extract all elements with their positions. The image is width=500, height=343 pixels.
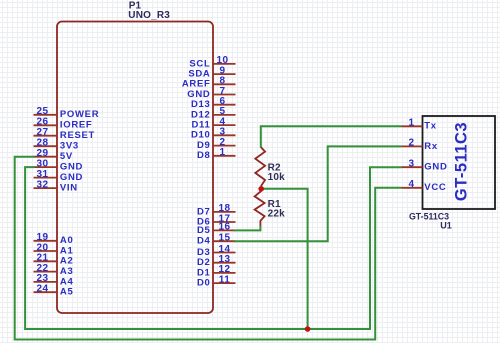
- junction node on bottom GND wire: [305, 326, 311, 332]
- svg-text:2: 2: [408, 138, 414, 149]
- junction node R1/R2/GND-branch: [258, 186, 264, 192]
- pin 3 GND of U1: [402, 159, 448, 173]
- svg-text:D8: D8: [197, 150, 211, 161]
- pin 25 POWER of P1: [34, 106, 100, 120]
- wire 5V net: P1 pin29 to U1 VCC: [15, 157, 402, 340]
- resistor R1: [255, 191, 286, 226]
- svg-text:GND: GND: [424, 162, 447, 173]
- wire GND net: P1 pin30 to U1 GND: [25, 167, 401, 329]
- svg-text:U1: U1: [440, 221, 452, 231]
- pin 30 GND of P1: [34, 158, 84, 172]
- pin 18 D7 of P1: [197, 203, 236, 217]
- svg-text:POWER: POWER: [60, 109, 99, 120]
- pin 29 5V of P1: [34, 148, 73, 162]
- svg-text:VCC: VCC: [424, 182, 446, 193]
- svg-text:10k: 10k: [268, 172, 286, 183]
- pin 26 IOREF of P1: [34, 117, 93, 131]
- svg-text:3: 3: [408, 159, 414, 170]
- svg-text:16: 16: [218, 222, 230, 233]
- pin 7 GND of P1: [187, 86, 235, 100]
- pin 11 D0 of P1: [197, 274, 236, 288]
- svg-text:31: 31: [36, 169, 48, 180]
- pin 13 D2 of P1: [197, 254, 236, 268]
- pin 5 D12 of P1: [191, 106, 236, 120]
- pin 22 A3 of P1: [34, 263, 74, 277]
- pin 28 3V3 of P1: [34, 138, 79, 152]
- pin 14 D3 of P1: [197, 244, 236, 258]
- svg-text:GND: GND: [60, 172, 83, 183]
- svg-text:15: 15: [218, 233, 230, 244]
- pin 24 A5 of P1: [34, 284, 74, 298]
- svg-text:32: 32: [36, 179, 48, 190]
- svg-text:D5: D5: [197, 225, 211, 236]
- svg-text:3V3: 3V3: [60, 141, 79, 152]
- svg-text:29: 29: [36, 148, 48, 159]
- svg-text:26: 26: [36, 117, 48, 128]
- pin 1 D8 of P1: [197, 147, 236, 161]
- pin 6 D13 of P1: [191, 96, 236, 110]
- module U1 GT-511C3 body: [423, 116, 496, 209]
- wire U1 Rx to P1 D4: [234, 146, 402, 241]
- svg-text:27: 27: [36, 127, 48, 138]
- svg-text:Rx: Rx: [424, 141, 438, 152]
- pin 19 A0 of P1: [34, 232, 74, 246]
- pin 15 D4 of P1: [197, 233, 236, 247]
- pin 1 Tx of U1: [402, 118, 437, 132]
- svg-text:UNO_R3: UNO_R3: [128, 10, 170, 21]
- svg-text:5V: 5V: [60, 151, 73, 162]
- wire node R1/R2 to GND net: [261, 189, 308, 329]
- pin 20 A1 of P1: [34, 242, 74, 256]
- svg-text:A5: A5: [60, 287, 74, 298]
- pin 23 A4 of P1: [34, 273, 74, 287]
- wire R1 bottom to P1 D5: [234, 225, 261, 230]
- resistor R2: [255, 147, 285, 186]
- pin 9 SDA of P1: [188, 65, 235, 79]
- pin 4 VCC of U1: [402, 179, 447, 193]
- svg-text:28: 28: [36, 138, 48, 149]
- pin 27 RESET of P1: [34, 127, 96, 141]
- pin 16 D5 of P1: [197, 222, 236, 236]
- pin 31 GND of P1: [34, 169, 84, 183]
- svg-text:25: 25: [36, 106, 48, 117]
- pin 2 D9 of P1: [197, 137, 236, 151]
- svg-text:Tx: Tx: [424, 121, 437, 132]
- svg-text:D0: D0: [197, 278, 211, 289]
- pin 32 VIN of P1: [34, 179, 78, 193]
- pin 10 SCL of P1: [189, 55, 235, 69]
- pin 3 D10 of P1: [191, 127, 236, 141]
- connector P1 UNO_R3 body: [57, 22, 213, 314]
- svg-text:VIN: VIN: [60, 183, 78, 194]
- pin 12 D1 of P1: [197, 264, 236, 278]
- pin 2 Rx of U1: [402, 138, 438, 152]
- svg-text:24: 24: [36, 284, 48, 295]
- svg-text:GND: GND: [60, 162, 83, 173]
- pin 17 D6 of P1: [197, 213, 236, 227]
- svg-text:11: 11: [219, 274, 231, 285]
- svg-text:RESET: RESET: [60, 130, 95, 141]
- wire U1 Tx to R2 top: [261, 126, 402, 147]
- svg-text:GT-511C3: GT-511C3: [453, 122, 471, 201]
- pin 4 D11 of P1: [191, 116, 235, 130]
- svg-text:1: 1: [219, 147, 225, 158]
- pin 21 A2 of P1: [34, 253, 74, 267]
- svg-text:4: 4: [408, 179, 414, 190]
- svg-text:IOREF: IOREF: [60, 120, 93, 131]
- svg-text:D4: D4: [197, 236, 211, 247]
- svg-text:22k: 22k: [268, 209, 286, 220]
- pin 8 AREF of P1: [182, 76, 236, 90]
- svg-text:30: 30: [36, 158, 48, 169]
- svg-text:1: 1: [408, 118, 414, 129]
